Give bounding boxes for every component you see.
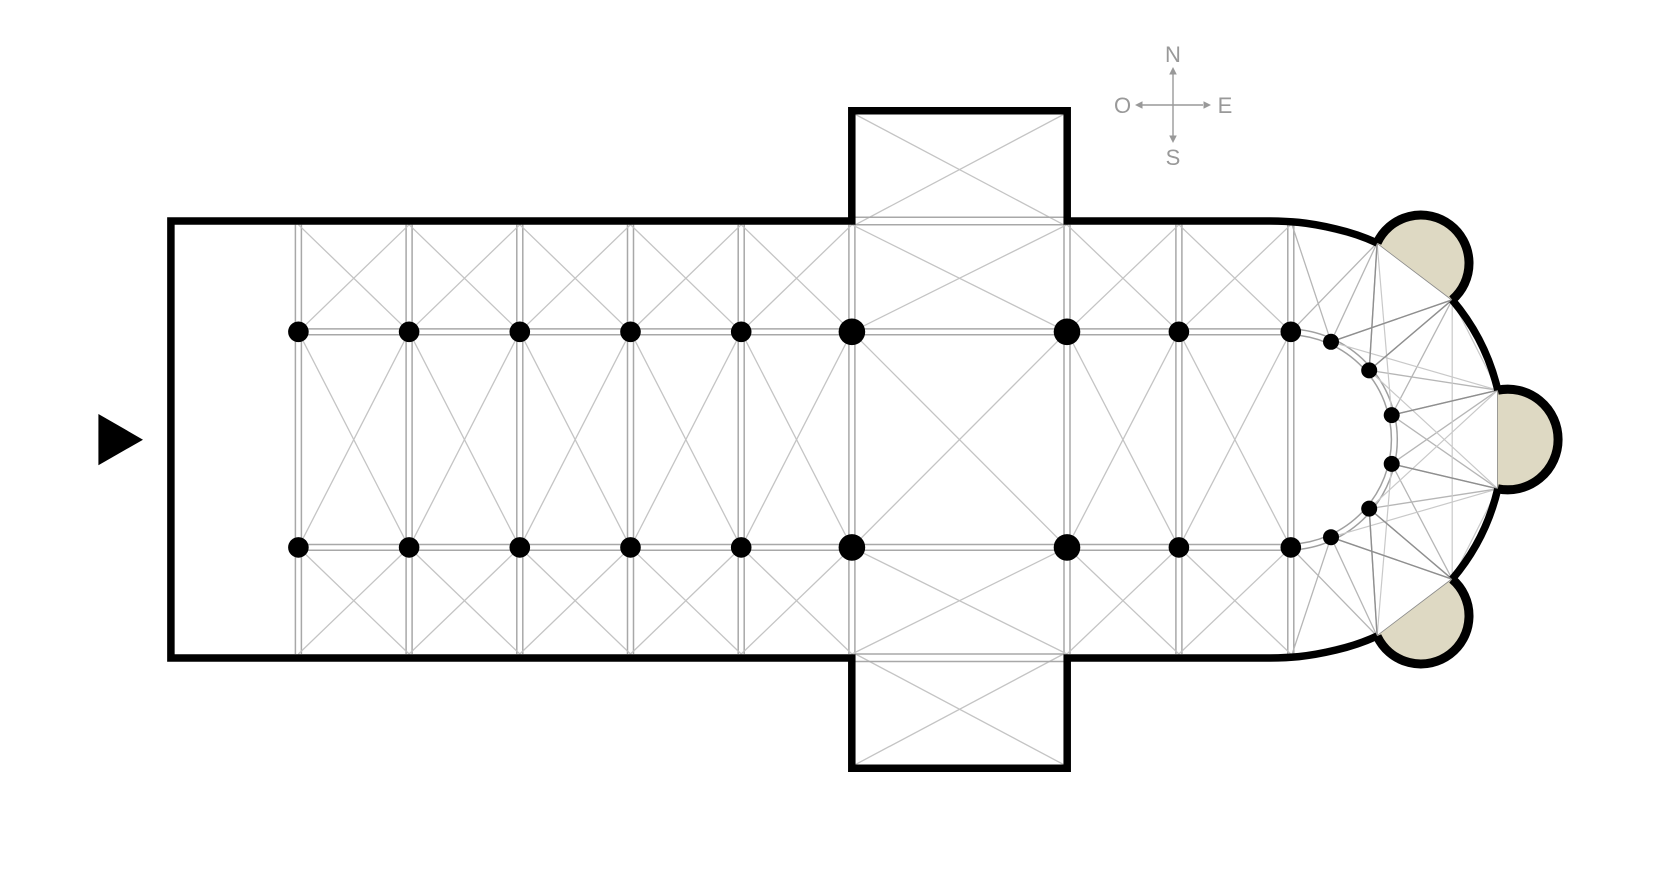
apse hemicycle double arc: [1291, 329, 1397, 550]
arcade double lines: [296, 329, 1291, 550]
crossing piers: [839, 319, 1081, 561]
apse wall segment SE: [1452, 489, 1498, 579]
ambulatory vault web: [1291, 221, 1498, 658]
aisle vault diagonal ribs: [298, 225, 1290, 654]
svg-text:O: O: [1114, 93, 1131, 118]
vault transverse arch double lines: [295, 225, 1293, 654]
chapel mouth chords: [1377, 243, 1498, 636]
compass rose: [1114, 42, 1232, 170]
apse hemicycle columns: [1323, 334, 1400, 545]
apse wall segment NE: [1452, 300, 1498, 390]
transept arm vault ribs: [856, 115, 1064, 765]
radiating chapel east (axial): [1498, 389, 1558, 490]
radiating chapel south-east: [1377, 579, 1469, 664]
church outer wall: [171, 111, 1377, 768]
nave vault diagonal ribs: [298, 332, 1290, 548]
svg-text:E: E: [1218, 93, 1233, 118]
radiating chapel north-east: [1377, 215, 1469, 300]
entrance arrow: [98, 414, 143, 465]
svg-text:N: N: [1165, 42, 1181, 67]
nave columns: [288, 322, 1301, 558]
svg-text:S: S: [1166, 145, 1181, 170]
